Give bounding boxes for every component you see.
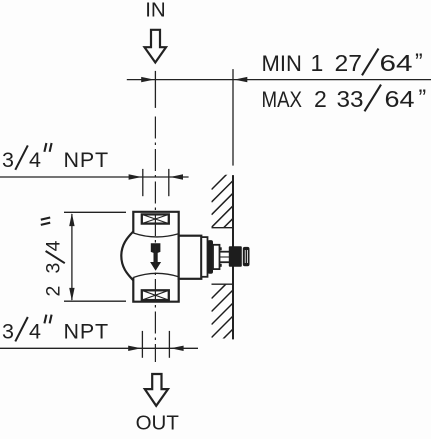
svg-text:IN: IN bbox=[145, 0, 166, 21]
svg-text:33: 33 bbox=[337, 86, 364, 112]
svg-text:MAX: MAX bbox=[262, 89, 303, 113]
svg-text:MIN: MIN bbox=[262, 51, 302, 76]
svg-text:64: 64 bbox=[380, 50, 413, 76]
svg-text:2: 2 bbox=[43, 286, 65, 297]
svg-text:”: ” bbox=[415, 49, 423, 75]
svg-text:1: 1 bbox=[311, 50, 324, 76]
svg-text:4: 4 bbox=[29, 148, 41, 172]
svg-text:”: ” bbox=[419, 85, 427, 111]
svg-text:2: 2 bbox=[314, 86, 327, 112]
svg-text:NPT: NPT bbox=[64, 148, 109, 172]
svg-text:3: 3 bbox=[2, 319, 14, 343]
svg-text:64: 64 bbox=[385, 86, 415, 112]
svg-text:4: 4 bbox=[29, 319, 41, 343]
svg-text:27: 27 bbox=[335, 50, 363, 76]
svg-text:3: 3 bbox=[2, 148, 14, 172]
svg-text:OUT: OUT bbox=[136, 412, 180, 435]
svg-text:NPT: NPT bbox=[64, 319, 109, 343]
svg-text:4: 4 bbox=[43, 240, 65, 251]
svg-text:3: 3 bbox=[43, 263, 65, 274]
